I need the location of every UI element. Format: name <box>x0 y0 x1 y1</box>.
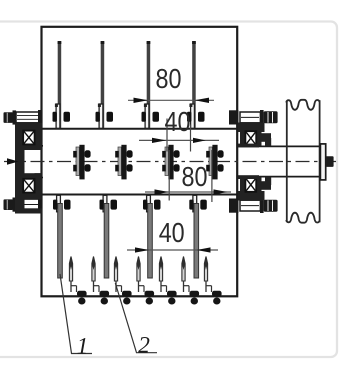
dim 40 upper right arrow <box>193 138 206 143</box>
left bearing lower race <box>23 173 42 199</box>
top blade B3 <box>142 41 160 128</box>
hub H2 <box>115 145 132 180</box>
dim 40 lower right arrow <box>197 247 211 252</box>
dim 80 top line <box>128 99 214 101</box>
tooth T1 <box>69 257 86 305</box>
drum top line <box>35 128 239 130</box>
tooth T2 <box>92 257 109 305</box>
dim 80 mid ext lines <box>168 150 170 201</box>
svg-text:80: 80 <box>182 161 208 192</box>
pulley bottom grooves <box>286 213 319 223</box>
left bearing bottom bolt <box>4 197 43 212</box>
dim 80 mid right arrow <box>214 189 228 194</box>
right bearing bottom bolt <box>229 198 278 213</box>
pulley top grooves <box>286 100 319 110</box>
dim 80 mid line <box>145 191 231 193</box>
tooth T7 <box>204 257 221 305</box>
tooth T3 <box>114 257 131 305</box>
svg-text:2: 2 <box>138 333 150 359</box>
shaft centerline <box>4 161 339 163</box>
svg-text:40: 40 <box>159 217 185 248</box>
dim 80 mid left arrow <box>155 189 169 194</box>
shaft left segment <box>21 145 43 147</box>
tooth T4 <box>137 257 154 305</box>
right bearing top bolt <box>229 110 278 125</box>
tooth T6 <box>182 257 199 305</box>
hub H3 <box>162 145 179 180</box>
hub H4 <box>206 145 223 180</box>
svg-text:1: 1 <box>77 334 89 360</box>
shaft left end arrow <box>7 158 19 164</box>
dim 40 lower line <box>127 249 218 251</box>
top blade B1 <box>53 41 71 128</box>
left bearing upper race <box>23 124 42 151</box>
dim 40 lower left arrow <box>135 247 149 252</box>
housing box <box>42 27 238 297</box>
leader line 2 <box>115 283 157 353</box>
dim 80 top left arrow <box>134 98 149 103</box>
svg-text:80: 80 <box>156 63 182 94</box>
tooth T5 <box>159 257 176 305</box>
left bearing flange <box>15 123 25 212</box>
bottom blade D3 <box>143 195 161 278</box>
svg-text:40: 40 <box>165 106 191 137</box>
top blade B2 <box>96 41 114 128</box>
dim 40 upper ext lines <box>166 119 168 152</box>
hub H1 <box>73 145 90 180</box>
bottom blade D4 <box>189 195 207 278</box>
drum bottom line <box>35 194 239 196</box>
top blade B4 <box>187 41 205 128</box>
leader line 1 <box>60 274 92 354</box>
dim 40 upper line <box>139 139 219 141</box>
dim 40 upper left arrow <box>152 138 166 143</box>
pulley right edge <box>319 100 321 222</box>
bottom blade D2 <box>100 195 118 278</box>
right bearing housing bottom <box>238 177 271 201</box>
shaft end bolt <box>326 156 334 167</box>
right bearing shaft collar <box>238 144 259 148</box>
pulley left edge <box>286 101 288 222</box>
left bearing top bolt <box>4 110 43 125</box>
shaft right segment <box>237 145 320 147</box>
bottom blade D1 <box>53 195 71 278</box>
dim 80 top right arrow <box>195 98 209 103</box>
right bearing housing top <box>238 123 271 147</box>
shaft end cap <box>320 144 325 180</box>
